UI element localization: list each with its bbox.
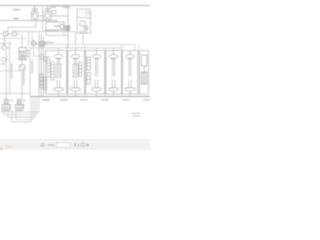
wire C2 to K1: [21, 34, 23, 48]
label P2: [15, 110, 23, 111]
wire interbox riser 4: [121, 45, 123, 97]
note line 2: [133, 115, 140, 116]
pilot lamp P1: [2, 99, 10, 109]
wire distribution bus A: [32, 32, 135, 51]
label near M1: [32, 13, 35, 14]
electrode V2: [71, 48, 81, 97]
aux contact C2: [12, 32, 16, 37]
cubicle box 1: [46, 51, 67, 95]
relay stack K1: [19, 48, 26, 60]
wire staircase 3: [8, 97, 35, 117]
label wire L2: [13, 18, 19, 19]
heater hatch P2: [17, 104, 22, 108]
note line 1: [131, 113, 140, 114]
cubicle box 2: [68, 51, 84, 95]
wire riser down to band: [67, 16, 69, 48]
heater hatch P1: [4, 104, 9, 108]
label feeder 5: [122, 99, 130, 100]
wire riser right: [75, 32, 77, 45]
rectifier D1: [60, 25, 64, 29]
wire branch riser: [34, 40, 40, 56]
toolbar fit button: [81, 143, 84, 146]
electrode V3: [92, 48, 102, 97]
toolbar page input: [57, 143, 70, 148]
wire M2 to riser: [51, 15, 68, 17]
toolbar logo: [5, 146, 12, 149]
cubicle box 6: [140, 51, 149, 95]
wire top rail segment over box: [50, 6, 68, 16]
pilot lamp P2: [15, 99, 23, 109]
wire U1 drop: [82, 33, 84, 44]
junction box J1: [52, 11, 56, 15]
control box B1 lower bay: [46, 22, 68, 35]
contactor K3: [141, 55, 147, 66]
label vertical wire return: [31, 60, 33, 73]
panel U1 (top right): [77, 9, 90, 33]
wire staircase 5: [12, 97, 31, 122]
toolbar bar: [0, 140, 150, 150]
wire control bus: [14, 31, 76, 33]
cubicle box 3: [86, 51, 105, 95]
arrester E2: [44, 57, 47, 62]
gauge C3: [0, 36, 10, 50]
wire interbox riser 1: [66, 45, 68, 97]
electrode V1: [54, 48, 64, 97]
wire interbox riser 5: [138, 45, 140, 97]
wire distribution bus B: [30, 47, 122, 49]
wire stub rail to B1: [56, 21, 58, 22]
wire cross tie: [0, 93, 30, 95]
resistor bank R3b: [87, 73, 91, 85]
gauge C4: [1, 57, 8, 61]
label on rail b: [63, 7, 70, 8]
label feeder 1: [42, 99, 50, 100]
wire top supply rail L1: [0, 5, 150, 7]
resistor bank R1: [47, 57, 50, 77]
aux relay K2: [19, 65, 24, 70]
wire lower tie: [0, 70, 19, 72]
toolbar zoom-out button: [41, 144, 44, 147]
wire return riser: [29, 48, 31, 96]
label feeder 4: [101, 99, 109, 100]
terminal block D2: [66, 26, 70, 30]
solenoid valve V0: [31, 41, 36, 46]
pressure switch C1: [4, 32, 9, 37]
electrode V5: [125, 51, 135, 97]
wire M1-M2 link: [38, 15, 44, 17]
wire left bus riser b: [40, 34, 42, 96]
toolbar zoom-in button: [75, 143, 79, 147]
wire lamp2 feed: [21, 60, 23, 99]
label on rail a: [50, 7, 56, 8]
node label top-left: [13, 9, 20, 10]
label vertical wire lamp2: [23, 71, 25, 85]
resistor bank R4: [141, 72, 147, 84]
wire left bus riser a: [38, 32, 40, 96]
control box B1: [46, 22, 64, 30]
label K1: [27, 50, 29, 52]
wire lamp1 feed: [5, 51, 7, 99]
resistor bank R2: [51, 62, 54, 80]
choke bar E3: [40, 74, 43, 88]
label inside B1: [54, 26, 60, 27]
wire bottom bus N: [30, 96, 150, 98]
wire V0 link: [36, 43, 48, 45]
label beside P2: [23, 100, 26, 101]
motor starter M2: [44, 6, 51, 19]
label vertical wire lamp1: [11, 63, 13, 79]
wire staircase 2: [4, 97, 37, 114]
toolbar page text: [48, 144, 55, 145]
wire interbox riser 3: [104, 48, 106, 97]
label feeder 3: [80, 99, 88, 100]
electrode V4: [109, 48, 119, 97]
wire staircase 1: [2, 97, 39, 112]
motor starter M1: [31, 6, 38, 20]
wire C1-C2 links: [0, 33, 20, 35]
wire left bus riser c: [42, 36, 44, 96]
wire corner riser x42: [42, 6, 44, 31]
label bus A: [44, 42, 54, 43]
wire riser x28.5: [28, 32, 30, 48]
wire under B1: [44, 30, 58, 32]
choke bar E4: [44, 77, 47, 90]
wire feeder rail L2: [0, 20, 57, 22]
wire tie y43.5: [0, 43, 12, 45]
transformer T0: [40, 42, 45, 47]
label C4: [1, 63, 6, 64]
wire M1 drop: [8, 19, 36, 33]
resistor bank R3a: [87, 57, 91, 70]
label feeder 6: [143, 99, 151, 100]
label feeder 2: [60, 99, 68, 100]
arrester E1: [40, 55, 43, 60]
wire K3-R4 stem: [143, 66, 145, 72]
toolbar fullscreen dot: [86, 144, 88, 146]
wire interbox riser 2: [84, 45, 86, 97]
wire branch to C-group: [13, 32, 15, 35]
wire spare feed: [9, 41, 11, 94]
label C3: [1, 44, 6, 45]
wire staircase 4: [16, 97, 33, 119]
heater hatch in U1: [81, 30, 87, 33]
wire tie y38.5: [0, 38, 26, 40]
label beside P1: [10, 100, 13, 101]
resistor bar R2b: [79, 62, 82, 76]
cubicle box 4: [106, 51, 121, 95]
cubicle box 5: [123, 51, 138, 95]
label P1: [2, 110, 10, 111]
toolbar corner mark: [0, 148, 2, 150]
